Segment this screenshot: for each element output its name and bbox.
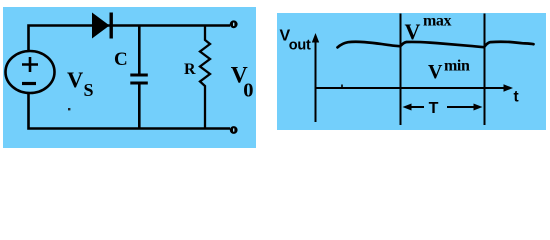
svg-text:V: V	[67, 67, 83, 92]
svg-text:S: S	[84, 80, 94, 100]
svg-text:t: t	[514, 89, 519, 106]
svg-text:C: C	[114, 49, 128, 70]
svg-text:T: T	[429, 100, 439, 117]
svg-text:max: max	[423, 13, 452, 30]
svg-text:min: min	[444, 58, 470, 75]
svg-text:0: 0	[243, 80, 253, 102]
svg-text:R: R	[184, 61, 196, 78]
svg-text:V: V	[428, 61, 443, 83]
svg-text:out: out	[289, 38, 311, 54]
svg-text:V: V	[405, 19, 421, 44]
